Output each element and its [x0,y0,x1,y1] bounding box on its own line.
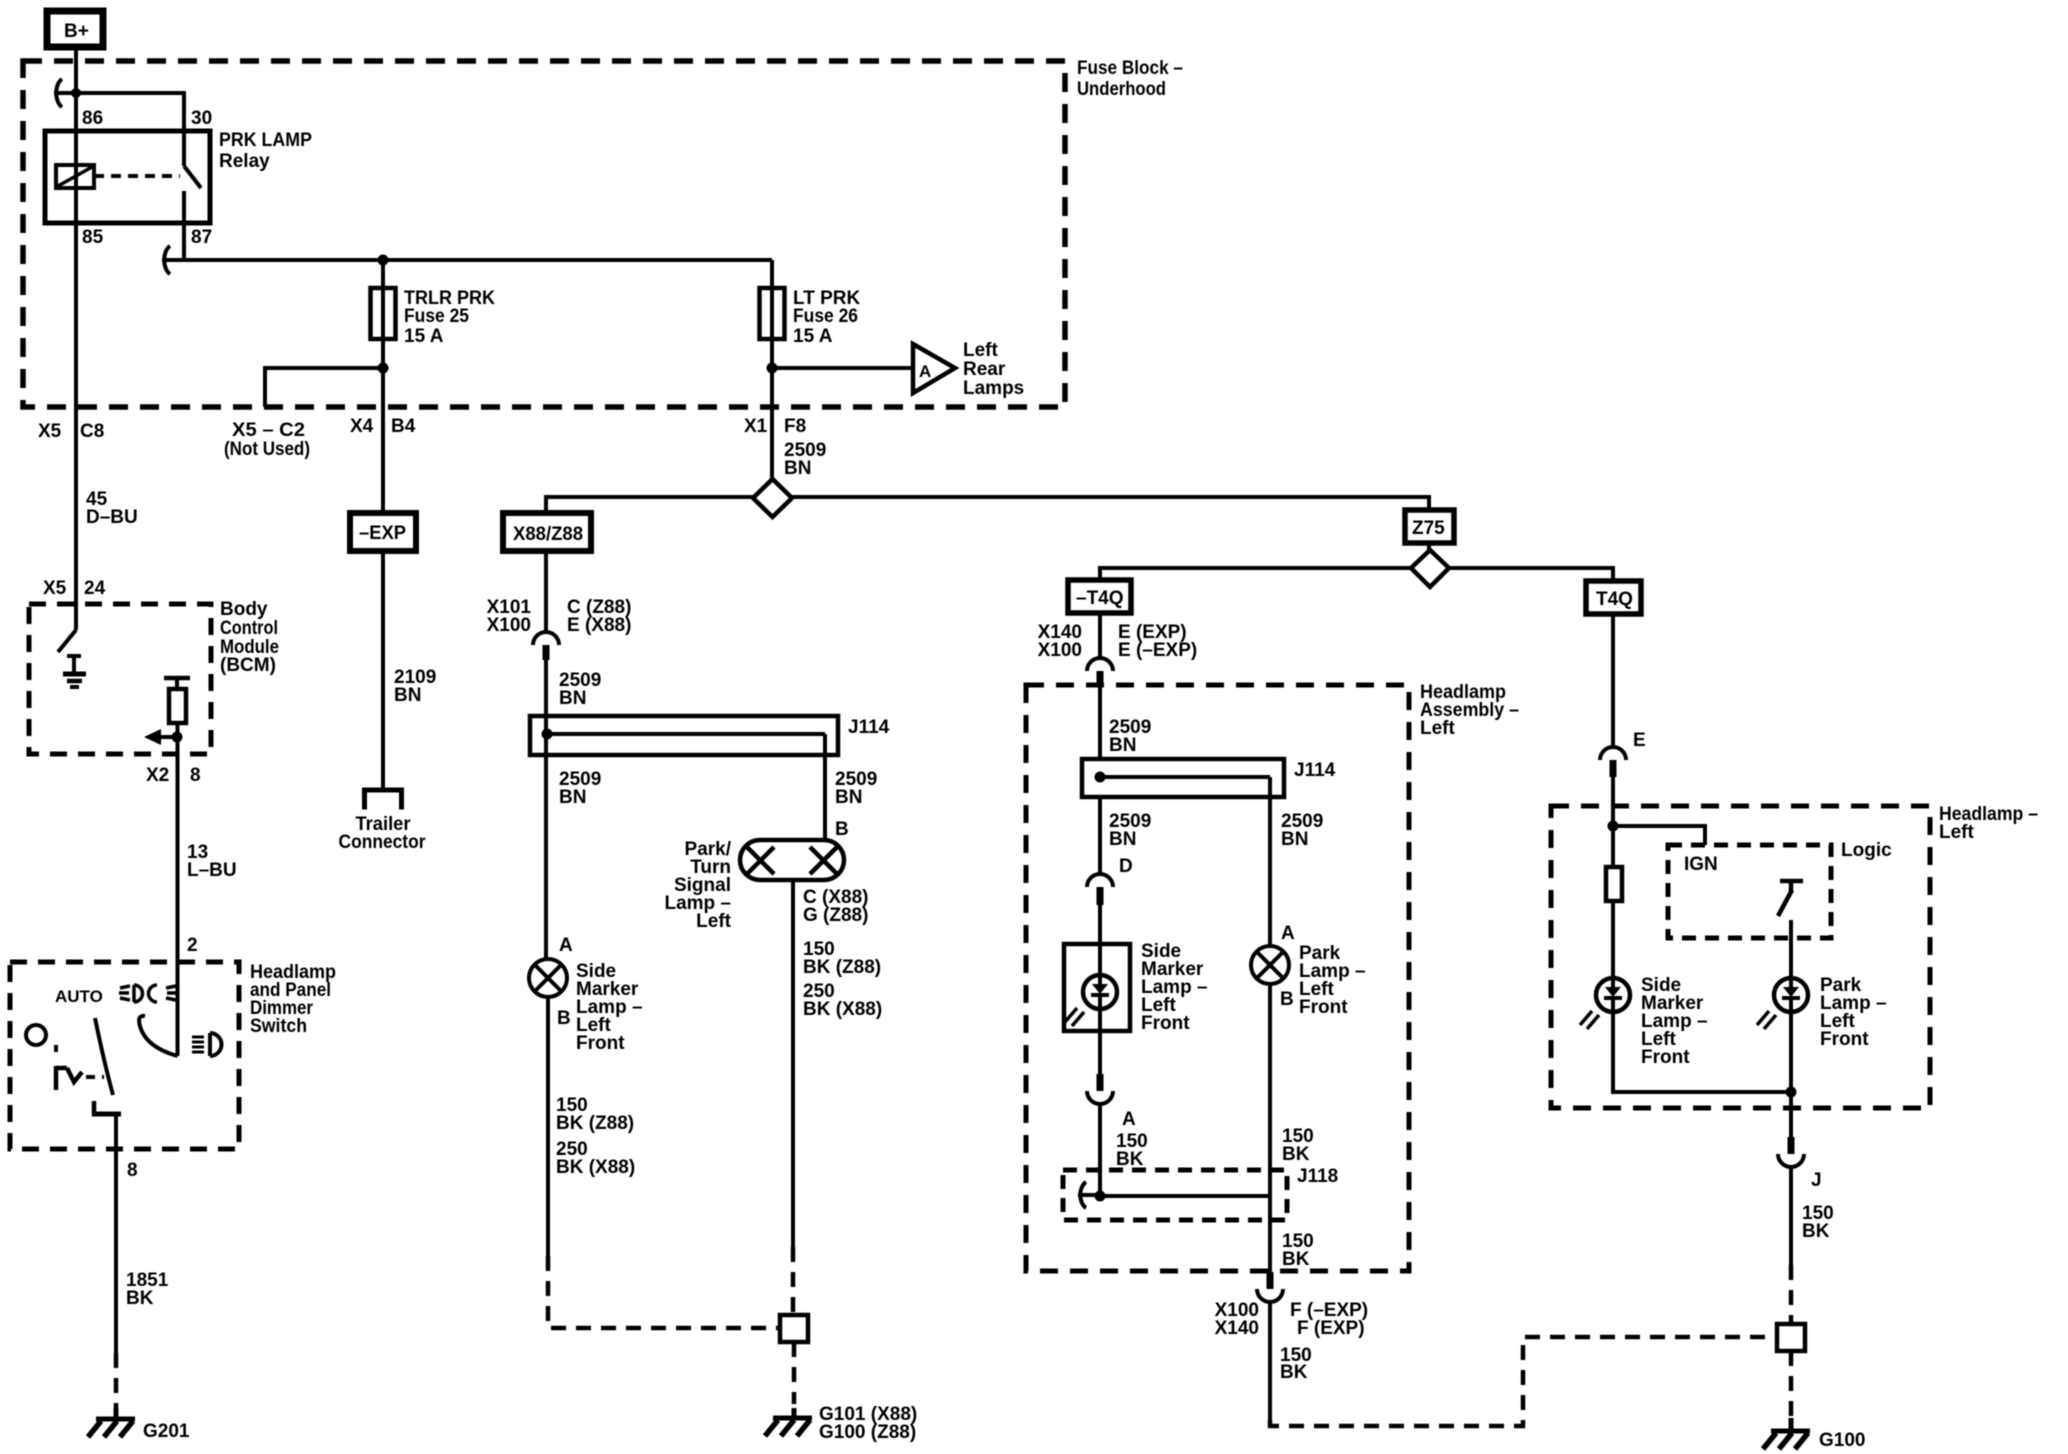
splice pack J114 (left) [530,716,838,755]
wire to J114 splice [544,660,548,959]
TRLR PRK Fuse 25 15 A label [404,288,495,347]
svg-text:G100: G100 [1819,1430,1865,1451]
Headlamp - Left dashed box [1551,806,1930,1108]
Headlamp and Panel Dimmer Switch label [250,962,336,1037]
connector pigtail at relay pin 87 [162,246,184,274]
svg-text:T4Q: T4Q [1596,589,1633,610]
svg-text:Front: Front [1299,997,1348,1018]
svg-text:G (Z88): G (Z88) [803,905,868,926]
svg-text:BN: BN [394,685,421,706]
svg-text:J118: J118 [1297,1166,1338,1187]
wire to left rear lamps arrow [772,366,913,370]
svg-text:A: A [1122,1109,1136,1130]
svg-text:J: J [1811,1170,1822,1191]
svg-text:Fuse 26: Fuse 26 [793,306,858,327]
svg-text:X2: X2 [146,765,169,786]
wire label 150 BK below J118 [1282,1231,1314,1270]
svg-text:A: A [559,935,573,956]
svg-text:Underhood: Underhood [1077,79,1166,100]
inline connector at J (tick over arc) [1778,1137,1804,1167]
svg-text:BN: BN [1281,829,1308,850]
svg-text:86: 86 [82,108,103,129]
wire to LT PRK fuse [770,260,774,481]
svg-text:B: B [557,1008,571,1029]
svg-text:X140: X140 [1215,1318,1259,1339]
resistor in headlamp left [1606,867,1622,901]
svg-text:J114: J114 [848,717,890,738]
Headlamp and Panel Dimmer Switch dashed box [10,962,239,1149]
wire label 2509 BN below X1 F8 [784,440,826,479]
park lamps icon [192,1033,222,1056]
svg-text:(BCM): (BCM) [220,655,276,676]
connector label X4 | B4 [350,416,416,437]
fuse LT PRK Fuse 26 [760,288,785,339]
relay coil [56,165,94,188]
wire into J118 [1098,1104,1102,1196]
splice pack J114 (right) [1082,759,1284,797]
inline connector arc at E [1600,747,1626,777]
ground symbol G201 [88,1408,135,1437]
label X100 X140 [1215,1300,1259,1339]
svg-text:BN: BN [1109,829,1136,850]
svg-text:BK (X88): BK (X88) [556,1157,635,1178]
svg-text:BK: BK [1280,1362,1308,1383]
wire dimmer switch to G201 [114,1114,118,1353]
ground junction block G100 [1777,1324,1805,1351]
splice bus J118 [1095,1191,1271,1202]
label F (-EXP) F (EXP) [1290,1300,1368,1339]
svg-text:BN: BN [784,458,811,479]
wire T4Q down [1611,614,1615,747]
wire label 13 L-BU [187,842,237,881]
svg-text:C8: C8 [80,421,104,442]
dashed ground run from side marker [548,1256,780,1328]
node at TRLR PRK fuse branch [378,255,389,266]
svg-text:24: 24 [84,578,106,599]
node at IGN branch [1608,821,1619,832]
svg-text:Left: Left [696,911,732,932]
svg-text:Rear: Rear [963,359,1006,380]
headlamp beams icon [119,985,177,1002]
svg-text:BK: BK [1282,1144,1310,1165]
wire label 2109 BN [394,667,436,706]
Left Rear Lamps label [963,340,1024,399]
svg-text:BK (X88): BK (X88) [803,999,882,1020]
svg-text:BN: BN [559,688,586,709]
wire -T4Q down [1098,613,1102,658]
Fuse Block - Underhood label [1077,58,1183,100]
dashed ground run to G100 junction [1270,1337,1781,1426]
label C (Z88) E (X88) [567,597,631,636]
splice diamond [753,479,792,517]
svg-text:D–BU: D–BU [86,507,138,528]
wire label 250 BK (X88) [556,1139,635,1178]
svg-text:B: B [835,819,849,840]
X5 - C2 (Not Used) label [224,420,310,460]
node at left rear lamps branch [767,363,778,374]
inline connector at X100/X140 F (tick over arc) [1257,1272,1283,1302]
BCM pwm output arrow [144,729,183,745]
svg-text:BK: BK [126,1288,154,1309]
Logic dashed box [1668,845,1831,938]
wire label 1851 BK [126,1270,169,1309]
ground symbol G100 [1763,1418,1810,1449]
dashed wire to ground junction block [791,1247,796,1315]
Body Control Module (BCM) label [220,599,279,676]
ground junction block G101/G100 [780,1315,808,1342]
svg-text:87: 87 [191,227,212,248]
svg-text:L–BU: L–BU [187,860,237,881]
svg-text:–EXP: –EXP [359,523,406,544]
svg-text:BK (Z88): BK (Z88) [556,1113,634,1134]
svg-text:(Not Used): (Not Used) [224,439,310,460]
svg-text:BN: BN [1109,735,1136,756]
svg-text:E: E [1633,730,1646,751]
svg-text:B: B [1280,989,1294,1010]
Body Control Module dashed box [29,604,211,754]
wire label 150 BK [1802,1203,1834,1242]
connector box T4Q [1586,581,1641,614]
wire side marker to ground run [546,997,550,1256]
wire label 150 BK (Z88) [556,1095,634,1134]
OFF position circle [26,1025,46,1045]
wire down from F connector [1268,1301,1272,1420]
label X101 X100 [487,597,532,636]
wire into headlamp assembly [1098,686,1102,759]
Side Marker Lamp - Left Front label (assembly) [1141,941,1208,1034]
fuse TRLR PRK Fuse 25 [371,288,396,339]
side marker lamp LED box [1064,944,1130,1031]
connector box Z75 [1405,510,1454,543]
inline connector arc at X101/X100 [533,632,559,660]
svg-text:BK: BK [1802,1221,1830,1242]
svg-text:X4: X4 [350,416,374,437]
splice J118 dashed box [1063,1170,1287,1220]
svg-text:Relay: Relay [219,151,270,172]
Side Marker Lamp - Left Front label (headlamp) [1641,975,1708,1068]
svg-text:8: 8 [190,765,201,786]
connector box X88/Z88 [503,513,591,551]
svg-text:A: A [1281,923,1295,944]
wire J to ground junction block [1789,1167,1793,1265]
trailer connector terminal [365,790,402,810]
dashed wire to G201 [114,1353,119,1408]
Park/Turn Signal Lamp - Left label [664,839,731,932]
svg-text:–T4Q: –T4Q [1076,588,1124,609]
side marker lamp LED (headlamp left) [1580,978,1630,1029]
svg-text:X5: X5 [43,578,67,599]
feed wire 87 to fuses [184,258,772,262]
svg-text:J114: J114 [1294,760,1336,781]
wire side marker LED down [1098,1031,1102,1074]
wire label 2509 BN above J114 [559,670,601,709]
Park Lamp - Left Front label (assembly) [1299,943,1366,1018]
wire Z75 to diamond [1427,543,1431,553]
splice line T4Q [1100,568,1613,581]
wire J114 to side marker LED [1098,797,1102,873]
dashed wire junction block to G100 [1789,1351,1794,1418]
BCM internal switch blade [58,630,76,652]
svg-text:X5 – C2: X5 – C2 [232,420,305,441]
park lamp column: wire label 2509 BN [1281,811,1323,850]
wire into headlamp left [1611,777,1615,867]
park/turn signal lamp left (dual bulb) [740,840,844,880]
svg-text:BK (Z88): BK (Z88) [803,957,881,978]
wire relay pin 87 down [182,223,186,260]
svg-text:Connector: Connector [339,832,427,853]
relay PRK LAMP box [45,131,210,223]
svg-text:2: 2 [187,935,198,956]
svg-text:15 A: 15 A [404,326,444,347]
relay switch blade [184,131,201,223]
G101 (X88) G100 (Z88) label [819,1404,917,1443]
wire J114 to park/turn lamp [823,755,827,841]
terminal label C (X88) G (Z88) [803,887,868,926]
svg-text:B4: B4 [391,416,416,437]
inline connector arc at X140/X100 [1087,658,1113,686]
connector box -EXP [350,513,416,551]
svg-text:E (–EXP): E (–EXP) [1118,640,1197,661]
output contact of dimmer switch [92,1101,121,1116]
wire branch to IGN [1613,826,1705,845]
svg-text:Front: Front [1141,1013,1190,1034]
svg-text:F8: F8 [784,416,806,437]
svg-text:85: 85 [82,227,104,248]
wire branch to X5-C2 (not used) [265,368,383,407]
Headlamp - Left label [1939,804,2038,843]
wire to relay pin 30 [76,93,184,131]
svg-text:15 A: 15 A [793,326,833,347]
connector pigtail inside J118 [1078,1182,1100,1208]
PRK LAMP Relay label [219,130,312,172]
ground symbol G101/G100 [765,1408,812,1436]
wire logic switch to park lamp LED [1789,920,1793,977]
wire 2 into switch [176,953,180,1056]
wire label 250 BK (X88) [803,981,882,1020]
connector label X5 | C8 [38,421,104,442]
wire label 150 BK [1280,1345,1312,1383]
svg-text:Left: Left [1420,718,1456,739]
svg-text:BK: BK [1116,1149,1144,1170]
LT PRK Fuse 26 15 A label [793,288,860,347]
Park Lamp - Left Front label (headlamp) [1820,975,1887,1050]
svg-text:Z75: Z75 [1412,518,1445,539]
side marker lamp left front (bulb) [529,959,567,997]
dashed wire to G100 junction block [1789,1265,1794,1324]
wire label 45 D-BU [86,489,138,528]
svg-text:Front: Front [576,1033,625,1054]
wire B+ to BCM (pin 86 / 85 feed) [74,47,78,630]
svg-text:D: D [1119,856,1133,877]
mechanical link to off position [56,1045,104,1090]
wire park lamp down through J118 [1268,797,1272,946]
park lamp LED (headlamp left) [1757,978,1808,1029]
svg-text:30: 30 [191,108,212,129]
wire through TRLR PRK fuse down to -EXP [381,260,385,513]
wire label 150 BK (Z88) [803,939,881,978]
svg-text:X1: X1 [744,416,768,437]
connector label X1 | F8 [744,416,806,437]
Trailer Connector label [339,814,427,853]
svg-text:Fuse 25: Fuse 25 [404,306,469,327]
dimmer switch wiper blade [95,1018,113,1095]
svg-text:F (EXP): F (EXP) [1297,1318,1365,1339]
svg-text:Fuse Block –: Fuse Block – [1077,58,1183,79]
wire label 2509 BN below J114 [559,769,601,808]
wire X1 F8 to splice diamond [770,407,774,481]
connector label X2 | 8 [146,765,201,786]
svg-text:B+: B+ [64,21,89,42]
inline connector at A (tick over arc) [1087,1074,1113,1104]
svg-text:IGN: IGN [1684,854,1718,875]
connector box -T4Q [1068,580,1131,613]
wire label 150 BK [1116,1131,1148,1170]
svg-text:X100: X100 [1038,640,1082,661]
BCM internal ground [63,656,86,687]
svg-text:G201: G201 [143,1421,190,1442]
wire resistor to side marker LED [1611,901,1615,978]
svg-text:AUTO: AUTO [55,987,103,1006]
svg-text:BN: BN [559,787,586,808]
wire side marker LED to junction [1613,1012,1791,1092]
node at lamp ground junction [1786,1087,1797,1098]
main splice line [546,497,1429,513]
Side Marker Lamp - Left Front label [576,961,643,1054]
svg-text:Front: Front [1641,1047,1690,1068]
wire BCM output to dimmer switch [176,723,180,1056]
wire park/turn lamp to ground [791,880,795,1247]
arrow A to Left Rear Lamps [913,344,955,393]
wire label 2509 BN [1109,811,1151,850]
svg-text:A: A [919,362,931,381]
splice diamond below Z75 [1411,550,1449,587]
Headlamp Assembly - Left label [1420,682,1519,739]
svg-text:Logic: Logic [1841,840,1892,861]
wire park lamp LED to J connector [1789,1012,1793,1137]
svg-text:BK: BK [1282,1249,1310,1270]
label X140 X100 [1038,622,1082,661]
svg-text:BN: BN [835,787,862,808]
node junction at B+ feed [71,88,81,98]
wire -EXP to trailer connector [381,551,385,790]
svg-text:Front: Front [1820,1029,1869,1050]
relay actuation dashed link [94,174,180,178]
svg-text:X5: X5 [38,421,62,442]
svg-text:Left: Left [963,340,999,361]
wire label 150 BK above J118 [1282,1126,1314,1165]
BCM dimmer resistor [169,678,186,723]
Headlamp Assembly - Left dashed box [1026,685,1409,1271]
svg-text:Left: Left [1939,822,1975,843]
Fuse Block - Underhood dashed box [23,61,1065,407]
label E (EXP) E (-EXP) [1118,622,1197,661]
BCM dimmer rail [164,676,190,681]
svg-text:8: 8 [127,1160,138,1181]
wire X88/Z88 down [544,551,548,632]
svg-text:X88/Z88: X88/Z88 [513,524,583,545]
dashed wire junction block to ground [792,1342,797,1404]
park position contact track [139,1016,178,1056]
logic switch [1778,881,1803,916]
connector label X5 | 24 [43,578,106,599]
wire label 2509 BN [1109,717,1151,756]
svg-text:E (X88): E (X88) [567,615,631,636]
B+ power symbol [47,11,103,47]
node at X5-C2 branch [378,363,389,374]
connector pigtail at relay pin 86 [54,79,76,107]
svg-text:Lamps: Lamps [963,378,1024,399]
inline connector arc at D [1087,874,1113,905]
svg-text:G100 (Z88): G100 (Z88) [819,1422,916,1443]
svg-text:PRK LAMP: PRK LAMP [219,130,312,151]
wire to side marker lamp box [1098,902,1102,944]
svg-text:X100: X100 [487,615,531,636]
svg-text:Body: Body [220,599,268,620]
wire label 2509 BN right of J114 [835,769,877,808]
svg-text:Switch: Switch [250,1016,307,1037]
svg-text:Control: Control [220,618,278,639]
park lamp left front (bulb) [1251,946,1289,984]
